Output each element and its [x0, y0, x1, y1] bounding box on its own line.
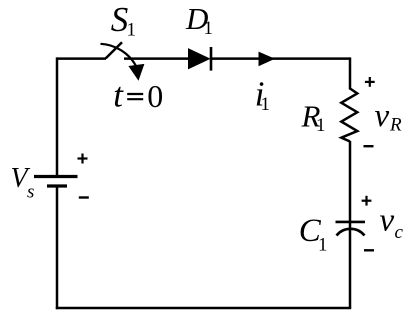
resistor plus sign — [365, 77, 375, 87]
diode D1 triangle — [188, 48, 211, 69]
switch S1 arrowhead — [128, 64, 144, 81]
resistor minus sign — [364, 145, 374, 147]
resistor R1 zigzag — [341, 89, 357, 142]
svg-text:v: v — [380, 203, 395, 239]
capacitor C1 top plate — [336, 221, 366, 224]
wire top-right segment — [211, 57, 350, 60]
capacitor minus sign — [364, 249, 374, 251]
diode D1 cathode bar — [210, 47, 213, 71]
battery Vs short plate — [47, 184, 67, 187]
wire left bottom segment — [56, 186, 59, 309]
svg-text:1: 1 — [127, 20, 137, 41]
svg-text:t: t — [113, 75, 124, 114]
svg-text:v: v — [375, 98, 390, 134]
wire top-middle segment — [124, 57, 189, 60]
svg-text:R: R — [389, 115, 402, 136]
wire right lower segment (through capacitor) — [349, 141, 352, 308]
wire top-left segment — [57, 57, 106, 60]
wire bottom segment — [56, 307, 351, 310]
svg-text:s: s — [27, 182, 34, 203]
svg-text:1: 1 — [204, 18, 214, 39]
switch S1 closing arc — [101, 44, 137, 66]
capacitor C1 curved plate — [337, 229, 365, 236]
battery Vs long plate — [34, 175, 78, 178]
svg-text:0: 0 — [147, 78, 163, 114]
capacitor plus sign — [362, 196, 372, 206]
svg-text:1: 1 — [318, 235, 328, 256]
battery plus sign — [78, 154, 88, 164]
wire right top segment — [349, 57, 352, 89]
switch S1 blade — [106, 42, 122, 58]
current i1 arrowhead — [259, 52, 276, 67]
wire left top segment — [56, 57, 59, 176]
svg-text:1: 1 — [261, 94, 271, 115]
svg-text:1: 1 — [316, 115, 326, 136]
svg-text:c: c — [395, 222, 404, 243]
battery minus sign — [79, 196, 89, 198]
